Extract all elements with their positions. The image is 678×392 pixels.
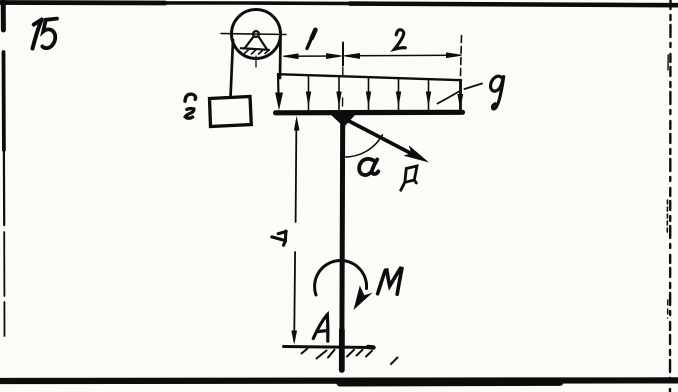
pulley centerline: [255, 56, 257, 67]
frame right border: [669, 0, 672, 392]
figure number 15: [33, 20, 42, 49]
dim tick middle: [342, 43, 344, 66]
label M: [378, 268, 402, 294]
label 1: [307, 30, 315, 49]
pulley pin: [253, 31, 259, 37]
junction fillet: [330, 114, 356, 127]
label G: [185, 94, 196, 101]
force P arrow: [346, 120, 415, 156]
angle arc alpha: [345, 135, 383, 157]
label 4 (rotated): [272, 231, 286, 245]
distributed load box top edge: [278, 74, 461, 80]
load arrows (dividers): [309, 75, 429, 111]
frame top border: [0, 3, 678, 5]
dim arrow left: [284, 54, 299, 59]
label P: [401, 166, 417, 190]
label alpha: [359, 159, 378, 175]
post (vertical column): [339, 115, 345, 370]
moment M arc: [315, 261, 367, 295]
rope right (to beam): [279, 37, 282, 79]
ground hatching: [302, 349, 398, 365]
load box left edge with arrow: [277, 74, 280, 96]
frame bottom border: [0, 377, 678, 384]
label q: [491, 76, 504, 109]
dimension line top: segment 2: [345, 54, 456, 57]
rope left (to weight): [231, 40, 234, 98]
leader line to q: [438, 84, 483, 104]
label 2: [394, 30, 405, 50]
dashed centerline of post: [342, 68, 344, 107]
weight block: [210, 97, 252, 127]
dim arrows middle: [327, 54, 342, 59]
frame left border: [1, 0, 6, 30]
pulley base hatching: [245, 49, 269, 54]
dim tick right (dashed): [461, 36, 462, 77]
dimension line 4 (vertical): [294, 121, 296, 341]
moment arrowhead: [354, 286, 373, 311]
dimension line top: segment 1: [284, 55, 339, 57]
pulley support bracket: [245, 37, 267, 48]
dim arrow right: [447, 53, 462, 58]
ground line: [284, 347, 373, 348]
label A: [313, 315, 328, 342]
pulley wheel: [232, 10, 281, 59]
load box right edge with arrow: [459, 80, 462, 109]
pulley axle line: [221, 34, 286, 35]
beam: [276, 110, 463, 116]
pulley bracket base: [241, 48, 269, 50]
